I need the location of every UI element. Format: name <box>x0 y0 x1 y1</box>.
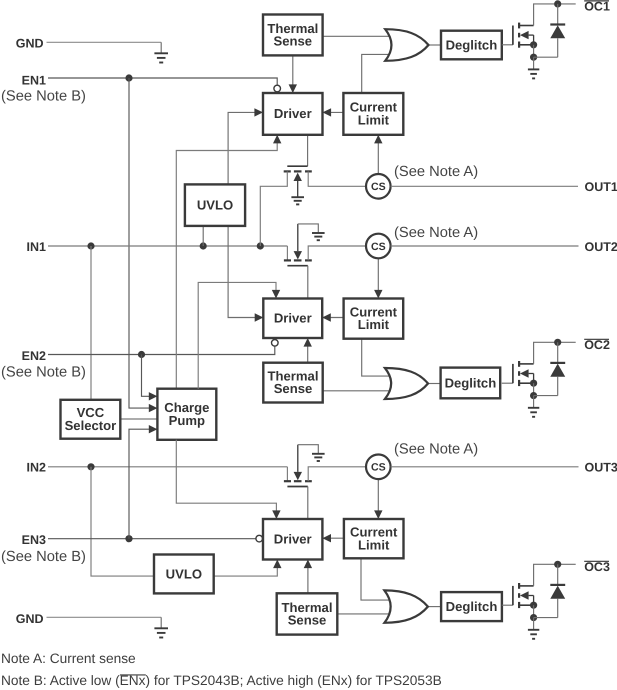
svg-text:(See Note A): (See Note A) <box>394 225 478 241</box>
ground (OC2) <box>528 396 539 417</box>
svg-text:OUT1: OUT1 <box>585 180 617 194</box>
junction IN2 / VCC selector rail <box>87 463 94 470</box>
junction ground node OC2 <box>530 392 537 399</box>
wire Q1 source to ground node <box>533 45 535 57</box>
net label OC3 (active low) <box>584 560 610 574</box>
node OC2 rail junction <box>554 339 561 346</box>
current-sense circle CS3 <box>366 455 391 480</box>
wire OUT2 <box>391 245 579 247</box>
ground (GND top port) <box>154 42 168 62</box>
svg-text:Sense: Sense <box>288 613 327 628</box>
block Driver 1 <box>263 93 323 135</box>
block Current Limit 1 <box>343 93 403 135</box>
wire IN2 bus <box>48 466 287 468</box>
inverter bubble Driver3 EN input <box>256 535 263 542</box>
transistor M2 (power switch) <box>284 224 312 266</box>
wire Thermal Sense2 to OR2 input <box>323 390 390 392</box>
wire Thermal Sense2 to Driver2 bottom <box>307 344 309 363</box>
svg-text:OC3: OC3 <box>584 560 610 574</box>
wire Deglitch2 output to OC2 gate <box>502 382 513 384</box>
arrow Charge Pump into Driver1 bottom <box>273 135 281 144</box>
block Driver 2 <box>263 299 322 339</box>
wire OUT3 <box>391 466 579 468</box>
wire M3 gate lead to Driver <box>307 487 309 520</box>
block Deglitch 1 <box>441 31 502 60</box>
transistor Q1 (OC1 open-drain MOSFET) <box>513 23 534 48</box>
junction IN1 / VCC selector rail <box>87 242 94 249</box>
block Deglitch 3 <box>441 592 502 621</box>
wire CS1 to Current Limit1 <box>377 141 379 174</box>
junction Q3 source/body node <box>530 602 537 609</box>
wire Current Limit1 to Driver1 <box>323 111 344 113</box>
wire IN lead into M3 <box>286 467 288 481</box>
arrow CS1 into Current Limit1 bottom <box>374 135 382 144</box>
wire EN2 branch to Charge Pump <box>142 355 158 397</box>
block Driver 3 <box>263 519 322 560</box>
node OC1 rail junction <box>554 0 561 7</box>
wire M2 substrate to ground <box>298 224 319 233</box>
block Thermal Sense 3 <box>277 593 338 634</box>
svg-text:EN3: EN3 <box>22 533 46 547</box>
svg-text:OC2: OC2 <box>584 338 610 352</box>
wire Current Limit2 to Driver2 <box>322 317 343 319</box>
wire ground node to diode D2 anode <box>534 395 558 397</box>
arrow UVLO into Driver2 left <box>255 313 264 321</box>
svg-text:Note B: Active low (ENx) for T: Note B: Active low (ENx) for TPS2043B; A… <box>1 673 442 688</box>
svg-text:IN1: IN1 <box>27 240 47 254</box>
block Thermal Sense 1 <box>263 15 323 56</box>
wire EN1 rail down to charge pump <box>129 78 157 408</box>
wire UVLO1 sense from IN1 <box>202 226 204 246</box>
svg-text:CS: CS <box>371 241 386 253</box>
wire M2 source lead to CS <box>308 246 366 260</box>
arrow Thermal Sense1 into Driver1 top <box>289 84 297 93</box>
or-gate OR2 <box>385 368 428 399</box>
block Deglitch 2 <box>441 368 501 399</box>
wire Thermal Sense3 to OR3 input <box>337 613 388 615</box>
junction Q1 source/body node <box>530 41 537 48</box>
svg-text:Pump: Pump <box>169 413 205 428</box>
svg-text:Deglitch: Deglitch <box>446 37 498 52</box>
svg-text:Deglitch: Deglitch <box>446 599 498 614</box>
ground (M1 substrate) <box>291 197 304 204</box>
wire Current Limit3 to Driver3 <box>322 537 344 539</box>
arrow Thermal Sense2 into Driver2 bottom <box>304 338 312 347</box>
wire Current Limit2 to OR2 input <box>362 339 390 376</box>
junction EN1 / EN rail <box>125 74 132 81</box>
diode D3 (OC3 clamp) <box>550 564 565 617</box>
wire M3 substrate to ground <box>298 445 319 454</box>
svg-text:OC1: OC1 <box>584 0 610 14</box>
net label OC2 (active low) <box>584 338 610 352</box>
wire M1 drain lead to IN1 rail <box>260 171 287 246</box>
junction EN3 / EN3 rail <box>125 535 132 542</box>
wire IN1 down to VCC Selector and UVLO3 <box>90 246 92 400</box>
wire Q2 source to ground node <box>533 383 535 395</box>
transistor M1 (power switch OUT1) <box>284 166 312 197</box>
block UVLO 1 <box>185 184 245 226</box>
svg-text:CS: CS <box>371 181 386 193</box>
wire CS3 to Current Limit3 <box>377 479 379 512</box>
wire IN lead into M2 <box>286 246 288 260</box>
wire OC1 drain to top rail <box>534 4 576 26</box>
wire EN2 to Driver2 enable bubble <box>48 346 275 354</box>
block Current Limit 2 <box>344 299 404 339</box>
wire Q3 source to ground node <box>533 605 535 617</box>
wire Charge Pump to Driver1 bottom <box>176 141 277 389</box>
junction IN1 / M1 drain rail <box>257 242 264 249</box>
wire EN3 rail up to charge pump <box>129 429 157 539</box>
svg-text:(See Note B): (See Note B) <box>1 88 86 104</box>
ground (OC3) <box>528 618 539 639</box>
diode D2 (OC2 clamp) <box>550 342 565 395</box>
svg-text:Note A: Current sense: Note A: Current sense <box>1 651 136 666</box>
svg-text:Driver: Driver <box>274 311 312 326</box>
block Charge Pump <box>157 389 216 440</box>
svg-text:GND: GND <box>16 37 44 51</box>
svg-text:(See Note A): (See Note A) <box>394 164 478 180</box>
svg-text:Limit: Limit <box>358 317 390 332</box>
ground (OC1) <box>528 57 539 78</box>
wire OC2 drain to top rail <box>534 342 576 364</box>
wire Charge Pump to Driver3 top <box>176 440 276 513</box>
wire Thermal Sense3 to Driver3 bottom <box>307 566 309 594</box>
svg-text:Limit: Limit <box>358 113 390 128</box>
arrow Charge Pump into Driver2 top <box>272 290 280 299</box>
arrow CS2 into Current Limit2 top <box>374 290 382 299</box>
wire OR1 output to Deglitch1 <box>429 44 442 46</box>
wire Deglitch3 output to OC3 gate <box>502 604 513 606</box>
wire EN1 to Driver1 enable bubble <box>48 78 277 85</box>
svg-text:Sense: Sense <box>274 34 313 49</box>
wire Current Limit1 to OR1 input <box>362 54 390 93</box>
net label OC1 (active low) <box>584 0 610 14</box>
wire M3 source lead to CS <box>308 467 366 481</box>
block Thermal Sense 2 <box>263 363 322 403</box>
wire ground node to diode D3 anode <box>534 617 558 619</box>
arrow Charge Pump into Driver3 top <box>272 510 280 519</box>
arrow Current Limit2 into Driver2 right <box>322 313 331 321</box>
svg-text:(See Note A): (See Note A) <box>394 442 478 458</box>
svg-text:OUT2: OUT2 <box>585 240 617 254</box>
svg-text:UVLO: UVLO <box>197 197 233 212</box>
or-gate OR1 <box>385 29 428 61</box>
svg-text:GND: GND <box>16 612 44 626</box>
current-sense circle CS2 <box>366 234 391 259</box>
transistor M3 (power switch) <box>284 445 312 487</box>
arrow EN rail into Charge Pump <box>149 404 158 412</box>
current-sense circle CS1 <box>366 174 391 199</box>
wire IN1 bus <box>48 245 287 247</box>
arrow UVLO3 into Driver3 bottom <box>273 560 281 569</box>
block VCC Selector <box>61 400 121 439</box>
diode D1 (OC1 clamp) <box>550 4 565 57</box>
wire CS2 to Current Limit2 <box>377 258 379 292</box>
arrow CS3 into Current Limit3 top <box>374 510 382 519</box>
arrow Current Limit1 into Driver1 right <box>323 108 332 116</box>
or-gate OR3 <box>384 590 428 622</box>
junction EN2 / charge pump branch <box>138 351 145 358</box>
svg-text:(See Note B): (See Note B) <box>1 549 86 565</box>
wire UVLO1 output rail to Driver1 and Driver2 <box>228 112 263 317</box>
wire Thermal Sense1 to OR1 input <box>323 35 390 37</box>
wire Deglitch1 output to OC1 gate <box>502 44 513 46</box>
wire OUT1 <box>391 185 578 187</box>
wire OC3 drain to top rail <box>534 564 576 586</box>
svg-text:EN1: EN1 <box>22 73 46 87</box>
transistor Q3 (OC3 open-drain MOSFET) <box>513 583 534 608</box>
svg-text:EN2: EN2 <box>22 349 46 363</box>
svg-text:Limit: Limit <box>358 537 390 552</box>
note text Note B (with overline ENx) <box>1 673 442 688</box>
wire UVLO3 to Driver3 bottom <box>214 566 278 576</box>
block UVLO 3 <box>154 555 214 594</box>
arrow EN2 branch into Charge Pump <box>149 392 158 400</box>
svg-text:UVLO: UVLO <box>166 566 202 581</box>
wire ground node to diode D1 anode <box>534 56 558 58</box>
ground (GND bottom port) <box>154 617 168 637</box>
svg-text:Driver: Driver <box>274 532 312 547</box>
arrow EN3 rail into Charge Pump <box>149 425 158 433</box>
svg-text:Selector: Selector <box>65 418 117 433</box>
wire IN2 rail down to UVLO3 <box>91 467 154 576</box>
wire OR2 output to Deglitch2 <box>428 383 441 385</box>
ground (M2 substrate) <box>312 233 325 240</box>
wire OR3 output to Deglitch3 <box>428 606 441 608</box>
svg-text:IN2: IN2 <box>27 460 47 474</box>
inverter bubble Driver2 EN input <box>272 340 279 347</box>
wire Current Limit3 to OR3 input <box>361 558 389 600</box>
wire M1 source lead to CS1 <box>308 171 366 186</box>
junction Q2 source/body node <box>530 380 537 387</box>
node OC3 rail junction <box>554 561 561 568</box>
wire EN3 to Driver3 enable bubble <box>48 538 256 540</box>
wire Thermal Sense1 to Driver1 <box>292 55 294 93</box>
svg-text:OUT3: OUT3 <box>585 461 617 475</box>
inverter bubble Driver1 EN input <box>274 85 281 92</box>
arrow UVLO into Driver1 left <box>254 108 263 116</box>
wire Driver1 output to M1 gate <box>307 135 309 166</box>
junction ground node OC3 <box>530 614 537 621</box>
wire M2 gate lead to Driver <box>307 266 309 299</box>
svg-text:Driver: Driver <box>274 106 312 121</box>
svg-text:Deglitch: Deglitch <box>445 375 497 390</box>
wire GND bottom <box>47 616 162 618</box>
wire VCC Selector to Charge Pump <box>120 418 157 420</box>
wire GND top <box>47 41 162 43</box>
junction IN1 / UVLO1 <box>200 242 207 249</box>
transistor Q2 (OC2 open-drain MOSFET) <box>513 361 534 386</box>
svg-text:CS: CS <box>371 462 386 474</box>
junction ground node OC1 <box>530 54 537 61</box>
wire Charge Pump to Driver2 top <box>198 282 276 388</box>
svg-text:(See Note B): (See Note B) <box>1 365 86 381</box>
ground (M3 substrate) <box>312 454 325 461</box>
svg-text:Sense: Sense <box>274 381 313 396</box>
arrow Current Limit3 into Driver3 right <box>322 534 331 542</box>
arrow Thermal Sense3 into Driver3 bottom <box>304 560 312 569</box>
block Current Limit 3 <box>344 519 404 558</box>
